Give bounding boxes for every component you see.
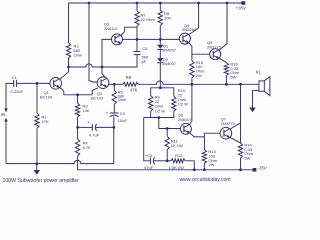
- svg-text:-35V: -35V: [258, 166, 268, 171]
- svg-text:4.7K: 4.7K: [83, 145, 92, 150]
- resistor R7: [135, 11, 156, 26]
- wire input left: [6, 83, 14, 110]
- resistor R3: [75, 103, 90, 117]
- svg-text:1N4007: 1N4007: [162, 47, 177, 52]
- wire R3 leads: [77, 95, 79, 128]
- resistor R1: [35, 113, 49, 128]
- svg-text:IN: IN: [1, 112, 5, 117]
- wire Q5 emitter: [219, 58, 226, 63]
- wire speaker ground: [252, 90, 254, 107]
- wire Q7 base: [204, 133, 220, 150]
- wire Q3 collector bus: [123, 38, 180, 40]
- svg-text:0.22uF: 0.22uF: [11, 89, 24, 94]
- transistor Q7: [220, 116, 235, 139]
- svg-text:Ohm: Ohm: [118, 97, 126, 102]
- node R12 rail: [193, 168, 196, 171]
- svg-text:2W: 2W: [196, 73, 202, 78]
- resistor R13: [202, 149, 218, 167]
- node R7 C5 junction: [136, 38, 139, 41]
- svg-text:2N3773: 2N3773: [207, 44, 222, 49]
- svg-text:R12: R12: [175, 153, 183, 158]
- wire R1 top lead: [36, 83, 38, 113]
- node R5 R6 junction: [113, 83, 116, 86]
- transistor Q5: [207, 40, 222, 60]
- node R11 top: [166, 127, 169, 130]
- node IN arrow down: [4, 109, 8, 113]
- wire R13 bottom: [203, 164, 205, 170]
- resistor R15: [190, 60, 205, 78]
- node R14 branch: [239, 83, 242, 86]
- node +35V terminal: [236, 1, 247, 10]
- wire +35V top rail: [69, 2, 244, 4]
- svg-text:C1: C1: [12, 75, 18, 80]
- node Q1 collector / R2: [67, 66, 70, 69]
- wire VAS node: [69, 55, 138, 67]
- node rail-R8: [159, 2, 162, 5]
- svg-text:47uF: 47uF: [144, 165, 154, 170]
- wire R12 to rail: [185, 161, 194, 170]
- svg-text:pF: pF: [142, 59, 147, 64]
- wire Q2 emitter: [92, 88, 98, 95]
- wire emitter bus: [64, 94, 92, 96]
- svg-text:5W: 5W: [244, 156, 250, 161]
- wire Q2 collector: [102, 67, 105, 78]
- svg-text:10K: 10K: [83, 108, 90, 113]
- svg-text:1N4007: 1N4007: [162, 61, 177, 66]
- node R1 top: [36, 82, 39, 85]
- svg-text:10K: 10K: [164, 16, 171, 21]
- node R16 output: [225, 83, 228, 86]
- svg-text:22 Ohm: 22 Ohm: [141, 17, 156, 22]
- wire Q6 emitter: [190, 133, 205, 137]
- node bias T: [159, 86, 162, 89]
- resistor R9: [149, 95, 166, 114]
- wire Q2 base column: [89, 3, 97, 82]
- node rail-89: [88, 2, 91, 5]
- resistor R12: [167, 153, 185, 170]
- wire Q5 base: [192, 53, 210, 55]
- node rail-Q5: [226, 2, 229, 5]
- node rail-R7: [136, 2, 139, 5]
- wire bias U: [144, 111, 174, 117]
- resistor R8: [158, 10, 171, 26]
- svg-text:5W: 5W: [230, 75, 236, 80]
- wire -35V rail: [194, 169, 254, 171]
- node R13 rail: [203, 168, 206, 171]
- transistor Q4: [179, 23, 196, 44]
- resistor R11: [165, 129, 183, 150]
- resistor R10: [172, 88, 189, 111]
- resistor R2: [66, 43, 83, 58]
- transistor Q2: [91, 77, 109, 101]
- wire R7 leads: [136, 3, 138, 39]
- node R1 ground: [35, 162, 38, 165]
- svg-text:+: +: [106, 110, 109, 115]
- wire ground rail: [6, 127, 114, 163]
- svg-text:2N6107: 2N6107: [104, 26, 119, 31]
- resistor R6: [123, 75, 138, 93]
- wire Q4 emitter: [189, 43, 192, 61]
- node R3 top: [76, 93, 79, 96]
- resistor R5: [112, 84, 126, 104]
- node -35V terminal: [253, 166, 268, 172]
- node R11 C4R12: [166, 159, 169, 162]
- wire R6 left: [114, 83, 123, 85]
- capacitor C2: [78, 120, 114, 137]
- node R14 rail: [239, 168, 242, 171]
- node IN arrow up: [4, 118, 8, 122]
- resistor R14: [238, 142, 253, 160]
- svg-text:Ohm: Ohm: [74, 53, 83, 58]
- wire output to R14: [240, 84, 242, 143]
- svg-text:+C4: +C4: [145, 153, 153, 158]
- wire R16 bottom: [225, 76, 227, 85]
- node bias U dot: [157, 116, 160, 119]
- capacitor C4: [144, 153, 167, 170]
- node R3 R4 C2: [76, 126, 79, 129]
- ground symbol speaker: [249, 108, 255, 113]
- svg-text:100W Subwoofer power amplifier: 100W Subwoofer power amplifier: [3, 178, 80, 184]
- resistor R16: [224, 61, 240, 79]
- svg-text:2W: 2W: [208, 162, 214, 167]
- capacitor C1: [11, 75, 24, 94]
- svg-text:47K: 47K: [42, 119, 49, 124]
- caption website: [180, 177, 231, 183]
- svg-text:1/2 W: 1/2 W: [155, 108, 166, 113]
- wire R15 bottom / Q6 top: [191, 78, 193, 121]
- node Q3 base junction: [101, 66, 104, 69]
- wire input shield: [5, 122, 7, 164]
- node R8 D1 junction: [159, 38, 162, 41]
- wire R8 leads: [159, 3, 161, 45]
- transistor Q6: [178, 112, 193, 134]
- svg-text:1K 1W: 1K 1W: [171, 143, 183, 148]
- wire Q4 collector: [189, 3, 199, 35]
- svg-text:BC109: BC109: [91, 95, 104, 100]
- diode D1: [157, 43, 177, 58]
- svg-text:47K: 47K: [130, 87, 138, 92]
- svg-text:www.circuitstoday.com: www.circuitstoday.com: [180, 177, 231, 183]
- svg-text:1/2 W: 1/2 W: [178, 101, 189, 106]
- svg-text:K1: K1: [256, 70, 262, 75]
- capacitor C5: [134, 39, 149, 63]
- svg-text:2N3773: 2N3773: [221, 121, 236, 126]
- wire left rail lower: [68, 58, 70, 67]
- wire bias to C4: [144, 118, 151, 161]
- svg-text:1.5K 2W: 1.5K 2W: [169, 165, 185, 170]
- svg-text:2N5294: 2N5294: [182, 27, 197, 32]
- wire left rail upper: [68, 3, 70, 43]
- wire Q6 base feed: [159, 118, 181, 129]
- svg-text:R6: R6: [126, 75, 132, 80]
- wire Q1 emitter: [60, 88, 64, 95]
- wire R4 top lead: [77, 127, 79, 139]
- node rail-Q4: [197, 2, 200, 5]
- wire output bus: [138, 81, 259, 84]
- svg-text:2N6107: 2N6107: [178, 117, 193, 122]
- speaker K1: [253, 70, 270, 96]
- caption title: [3, 178, 80, 184]
- wire Q3 emitter: [121, 27, 137, 35]
- wire Q3 base: [102, 39, 112, 67]
- wire Q6 collector: [189, 121, 192, 124]
- capacitor C3: [106, 104, 128, 127]
- svg-text:BC109: BC109: [40, 94, 53, 99]
- node C2 C3 junction: [112, 126, 115, 129]
- wire Q5 collector: [219, 3, 227, 50]
- svg-text:C5: C5: [142, 46, 148, 51]
- diode D2: [157, 57, 177, 88]
- wire Q1 collector: [60, 67, 69, 79]
- svg-text:+: +: [87, 120, 90, 125]
- wire R1 bottom lead: [36, 128, 38, 163]
- node R15 output: [191, 83, 194, 86]
- wire Q7 collector: [230, 123, 240, 129]
- transistor Q3: [104, 21, 123, 45]
- ground symbol input: [34, 164, 40, 175]
- wire R4 bottom lead: [78, 156, 195, 170]
- node IN label: [1, 112, 5, 117]
- resistor R4: [75, 139, 91, 156]
- wire C1 to Q1 base: [17, 82, 50, 84]
- wire R14 bottom: [240, 158, 242, 170]
- wire bias arms: [151, 88, 174, 97]
- svg-text:C3: C3: [120, 111, 126, 116]
- wire R11 bottom: [166, 150, 168, 161]
- svg-text:+35V: +35V: [236, 5, 247, 10]
- svg-text:10uF: 10uF: [118, 118, 128, 123]
- svg-text:4.7uF: 4.7uF: [89, 133, 100, 138]
- wire Q7 emitter: [230, 137, 240, 143]
- transistor Q1: [40, 78, 62, 100]
- wire Q2 base node: [109, 83, 115, 85]
